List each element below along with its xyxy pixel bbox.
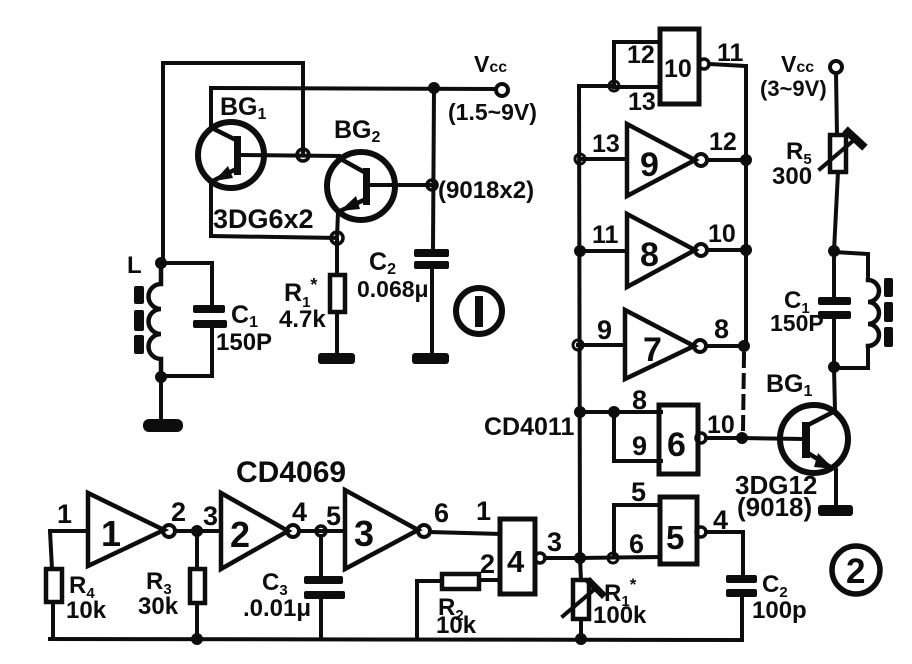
wire right bus — [744, 66, 748, 345]
capacitor C2 plates circuit2 — [726, 575, 757, 597]
resistor R1 body — [330, 275, 345, 312]
inverter 7 bubble — [694, 340, 706, 352]
node emitter junction — [331, 232, 343, 244]
svg-text:100p: 100p — [752, 597, 807, 624]
wire gate10 pin13 — [614, 85, 660, 89]
svg-text:11: 11 — [592, 221, 619, 249]
wire R2 to rail — [417, 581, 442, 639]
transistor BG1 base bar — [234, 136, 241, 175]
transistor BG1 emitter lead — [211, 168, 238, 182]
capacitor C2 plates — [414, 249, 449, 269]
transistor BG2 emitter arrow — [340, 196, 360, 211]
wire Vcc to R5 — [836, 73, 837, 135]
ground under R1 — [318, 353, 355, 364]
svg-text:30k: 30k — [138, 593, 179, 620]
svg-text:(9018): (9018) — [737, 492, 812, 522]
wire bus top to gate10 pins — [579, 84, 614, 88]
node gate10 pin junction — [609, 81, 619, 91]
svg-text:6: 6 — [667, 426, 686, 464]
gate 4 bubble — [535, 553, 545, 563]
node L top junction — [155, 257, 167, 269]
wire BG1 base to BG2 collector — [242, 155, 339, 156]
svg-text:4: 4 — [292, 497, 307, 527]
node bus gate6 junction — [574, 406, 586, 418]
wire R1 to rail — [579, 619, 583, 639]
svg-text:10k: 10k — [436, 612, 477, 639]
node gate8 input junction — [574, 245, 586, 257]
wire gate6 pin8 — [580, 410, 661, 414]
node gate5 pin junction — [608, 553, 618, 563]
svg-text:150P: 150P — [216, 329, 272, 356]
transistor BG2 emitter lead — [338, 199, 366, 212]
resistor R1 arrow — [563, 588, 596, 616]
inverter 8 — [627, 214, 695, 287]
inductor core bars circuit2 — [884, 278, 893, 347]
node R3 bottom junction — [191, 633, 203, 645]
gate 5 bubble — [696, 527, 706, 537]
wire BG2 emitter junction to R1 — [335, 238, 339, 275]
svg-text:11: 11 — [717, 39, 744, 67]
svg-text:3: 3 — [547, 527, 562, 557]
node gate9 out junction — [740, 154, 752, 166]
wire BG2 base to vcc drop — [370, 183, 430, 187]
node C3 top junction — [316, 526, 326, 536]
node Vcc rail junction — [428, 82, 440, 94]
wire left bus — [579, 87, 580, 558]
wire BG1 emitter drop — [209, 183, 213, 236]
wire gate6 out — [706, 436, 741, 440]
nand gate 10 box — [660, 29, 699, 104]
svg-text:(3~9V): (3~9V) — [760, 76, 827, 101]
svg-text:2: 2 — [480, 549, 495, 579]
transistor BG1c2 base bar — [802, 422, 810, 458]
nand gate 4 box — [500, 519, 535, 594]
resistor R3 body — [190, 569, 205, 603]
inductor coil circuit2 — [868, 280, 879, 346]
svg-text:5: 5 — [666, 519, 684, 556]
wire emitter bottom horizontal — [211, 236, 337, 238]
svg-text:13: 13 — [592, 130, 620, 158]
svg-text:12: 12 — [709, 128, 737, 156]
svg-text:CD4069: CD4069 — [236, 456, 346, 489]
gate 10 bubble — [699, 59, 709, 69]
resistor R5 arrow — [820, 140, 854, 169]
capacitor C1 plates circuit2 — [818, 297, 851, 319]
svg-text:7: 7 — [643, 331, 662, 369]
svg-text:1: 1 — [57, 499, 72, 529]
transistor BG1c2 emitter arrow — [814, 453, 834, 469]
inverter 1 — [88, 493, 164, 566]
wire gate10 out — [709, 64, 746, 66]
wire junction to C1 — [832, 252, 836, 297]
svg-text:100k: 100k — [593, 602, 647, 629]
wire R4 to rail — [51, 602, 55, 639]
svg-text:9: 9 — [640, 146, 659, 184]
wire gate8 out — [707, 248, 746, 252]
transistor BG1 circle — [198, 122, 264, 188]
svg-text:5: 5 — [326, 501, 341, 531]
Vcc terminal circuit 1 — [496, 84, 508, 96]
transistor BG2 circle — [327, 152, 395, 220]
wire Vcc rail — [211, 88, 496, 89]
svg-text:3: 3 — [203, 501, 218, 531]
wire L top to C1 — [161, 263, 212, 305]
wire input to R4 — [50, 531, 52, 569]
resistor R1 body circuit2 — [573, 580, 589, 619]
ground under L — [143, 419, 183, 432]
wire bottom rail — [50, 639, 742, 640]
wire gate10 pin12 loop — [614, 42, 660, 86]
node gate7 out junction — [738, 340, 750, 352]
svg-text:0.068μ: 0.068μ — [357, 276, 429, 302]
node tank bottom junction — [828, 361, 840, 373]
node R1 rail junction — [575, 633, 587, 645]
inductor L core bars — [134, 286, 144, 354]
inverter 9 bubble — [695, 154, 707, 166]
inverter 2 bubble — [287, 525, 299, 537]
node L bottom junction — [155, 371, 167, 383]
svg-text:CD4011: CD4011 — [484, 413, 574, 441]
svg-text:10: 10 — [707, 411, 735, 439]
transistor BG1c2 emitter lead — [808, 453, 832, 468]
inverter 9 — [627, 124, 695, 196]
wire C1 bottom — [161, 327, 212, 376]
node BG1 base junction — [297, 149, 309, 161]
resistor R5 body — [830, 135, 846, 172]
svg-text:(1.5~9V): (1.5~9V) — [448, 99, 537, 125]
gate 6 bubble — [696, 433, 706, 443]
inverter 1 bubble — [163, 525, 175, 537]
node R3 top junction — [191, 525, 203, 537]
svg-text:10: 10 — [664, 55, 692, 83]
svg-text:1: 1 — [101, 513, 121, 554]
transistor BG2 base bar — [363, 168, 370, 205]
wire R1 bottom to ground — [335, 312, 339, 353]
wire gate5 out — [706, 530, 743, 534]
svg-text:5: 5 — [631, 477, 646, 507]
wire bus to R1 — [580, 558, 581, 580]
svg-text:3: 3 — [354, 513, 374, 554]
wire tank to BG1 collector — [834, 368, 835, 411]
wire C1 to bottom junction — [832, 319, 836, 367]
svg-text:2: 2 — [846, 552, 865, 591]
wire gate4 out — [545, 556, 580, 560]
wire gate1 out to gate2 — [175, 529, 221, 533]
node BG2 base junction — [427, 180, 437, 190]
svg-text:2: 2 — [171, 497, 186, 527]
wire gate5 out down to C2 — [741, 532, 745, 575]
wire emitter to ground — [834, 470, 838, 508]
svg-text:13: 13 — [628, 88, 656, 116]
wire gate3 out to gate4 — [430, 532, 500, 534]
capacitor C1 plates — [193, 305, 227, 328]
wire BG2 emitter drop — [337, 212, 338, 238]
transistor BG1c2 collector lead — [808, 411, 835, 425]
wire C3 to rail — [319, 599, 323, 639]
svg-text:6: 6 — [434, 498, 449, 528]
marker circle 1 — [456, 288, 502, 334]
transistor BG1 emitter arrow — [214, 166, 233, 181]
wire top-left vertical — [161, 63, 165, 263]
svg-text:8: 8 — [640, 236, 659, 274]
svg-text:(9018x2): (9018x2) — [438, 177, 534, 204]
Vcc terminal circuit 2 — [830, 61, 842, 73]
wire gate5 pin6 — [580, 557, 660, 558]
wire R3 to rail — [195, 603, 199, 639]
wire gate9 input — [580, 157, 627, 161]
svg-text:L: L — [127, 252, 142, 279]
transistor BG1c2 circle — [780, 405, 848, 473]
wire gate8 input — [580, 249, 627, 253]
wire tank top to coil — [834, 252, 868, 280]
node gate4 out junction — [574, 552, 586, 564]
svg-text:10k: 10k — [66, 597, 107, 624]
wire gate9 out — [707, 158, 746, 162]
wire vertical into BG1 base node — [301, 63, 305, 152]
ground under C2 — [412, 353, 449, 364]
svg-text:8: 8 — [714, 314, 729, 344]
wire gate4 pin2 to R2 — [479, 578, 500, 582]
wire gate2 out to gate3 — [299, 529, 345, 533]
resistor R4 body — [46, 569, 62, 602]
svg-text:.0.01μ: .0.01μ — [243, 595, 311, 622]
nand gate 5 box — [660, 497, 697, 564]
svg-text:9: 9 — [597, 315, 612, 345]
wire junction to C3 — [319, 536, 323, 576]
svg-text:4: 4 — [507, 544, 525, 579]
wire R5 to tank junction — [834, 172, 838, 251]
svg-text:8: 8 — [632, 385, 647, 415]
svg-text:12: 12 — [627, 41, 655, 69]
nand gate 6 box — [659, 405, 698, 474]
capacitor C3 plates — [304, 576, 345, 599]
inverter 3 bubble — [418, 525, 430, 537]
wire gate5 pin5 loop — [614, 505, 660, 557]
wire L bottom to ground — [159, 377, 163, 419]
wire C2 bottom to ground — [430, 268, 434, 353]
wire BG1 collector riser — [209, 88, 213, 129]
node gate9 input junction — [575, 154, 585, 164]
svg-text:150P: 150P — [770, 310, 824, 336]
wire C2 to rail — [740, 597, 744, 640]
svg-text:6: 6 — [629, 529, 644, 559]
node gate6 out junction — [736, 432, 748, 444]
svg-text:4.7k: 4.7k — [279, 306, 326, 333]
wire gate6 out to base — [742, 438, 802, 439]
node gate7 input junction — [573, 340, 583, 350]
inverter 8 bubble — [695, 244, 707, 256]
svg-text:3DG6x2: 3DG6x2 — [213, 204, 314, 234]
svg-text:10: 10 — [708, 220, 736, 248]
svg-text:300: 300 — [772, 163, 812, 190]
node gate8 out junction — [740, 244, 752, 256]
inductor L coil — [149, 263, 162, 377]
ground under BG1c2 — [818, 505, 853, 516]
inverter 3 — [345, 490, 418, 569]
wire vcc drop to C2 — [433, 89, 434, 249]
inverter 7 — [625, 310, 694, 379]
transistor BG2 collector lead — [339, 158, 366, 173]
wire top horizontal — [163, 61, 303, 65]
svg-text:1: 1 — [476, 496, 491, 526]
marker circle 2 — [832, 546, 880, 594]
wire gate7 input — [578, 343, 625, 347]
svg-text:9: 9 — [632, 431, 647, 461]
node gate6 pin junction — [608, 406, 620, 418]
transistor BG1 collector lead — [212, 128, 238, 141]
wire gate1 input — [50, 529, 88, 533]
svg-text:4: 4 — [713, 505, 728, 535]
inverter 2 — [221, 493, 288, 569]
wire junction to R3 — [195, 531, 199, 569]
node tank top junction — [828, 245, 840, 257]
svg-text:2: 2 — [230, 514, 250, 555]
resistor R2 body — [442, 574, 479, 589]
wire gate7 out — [706, 344, 744, 348]
wire gate6 pin9 loop — [614, 412, 661, 461]
wire coil bottom jog — [834, 346, 868, 368]
dashed wire — [743, 354, 744, 432]
